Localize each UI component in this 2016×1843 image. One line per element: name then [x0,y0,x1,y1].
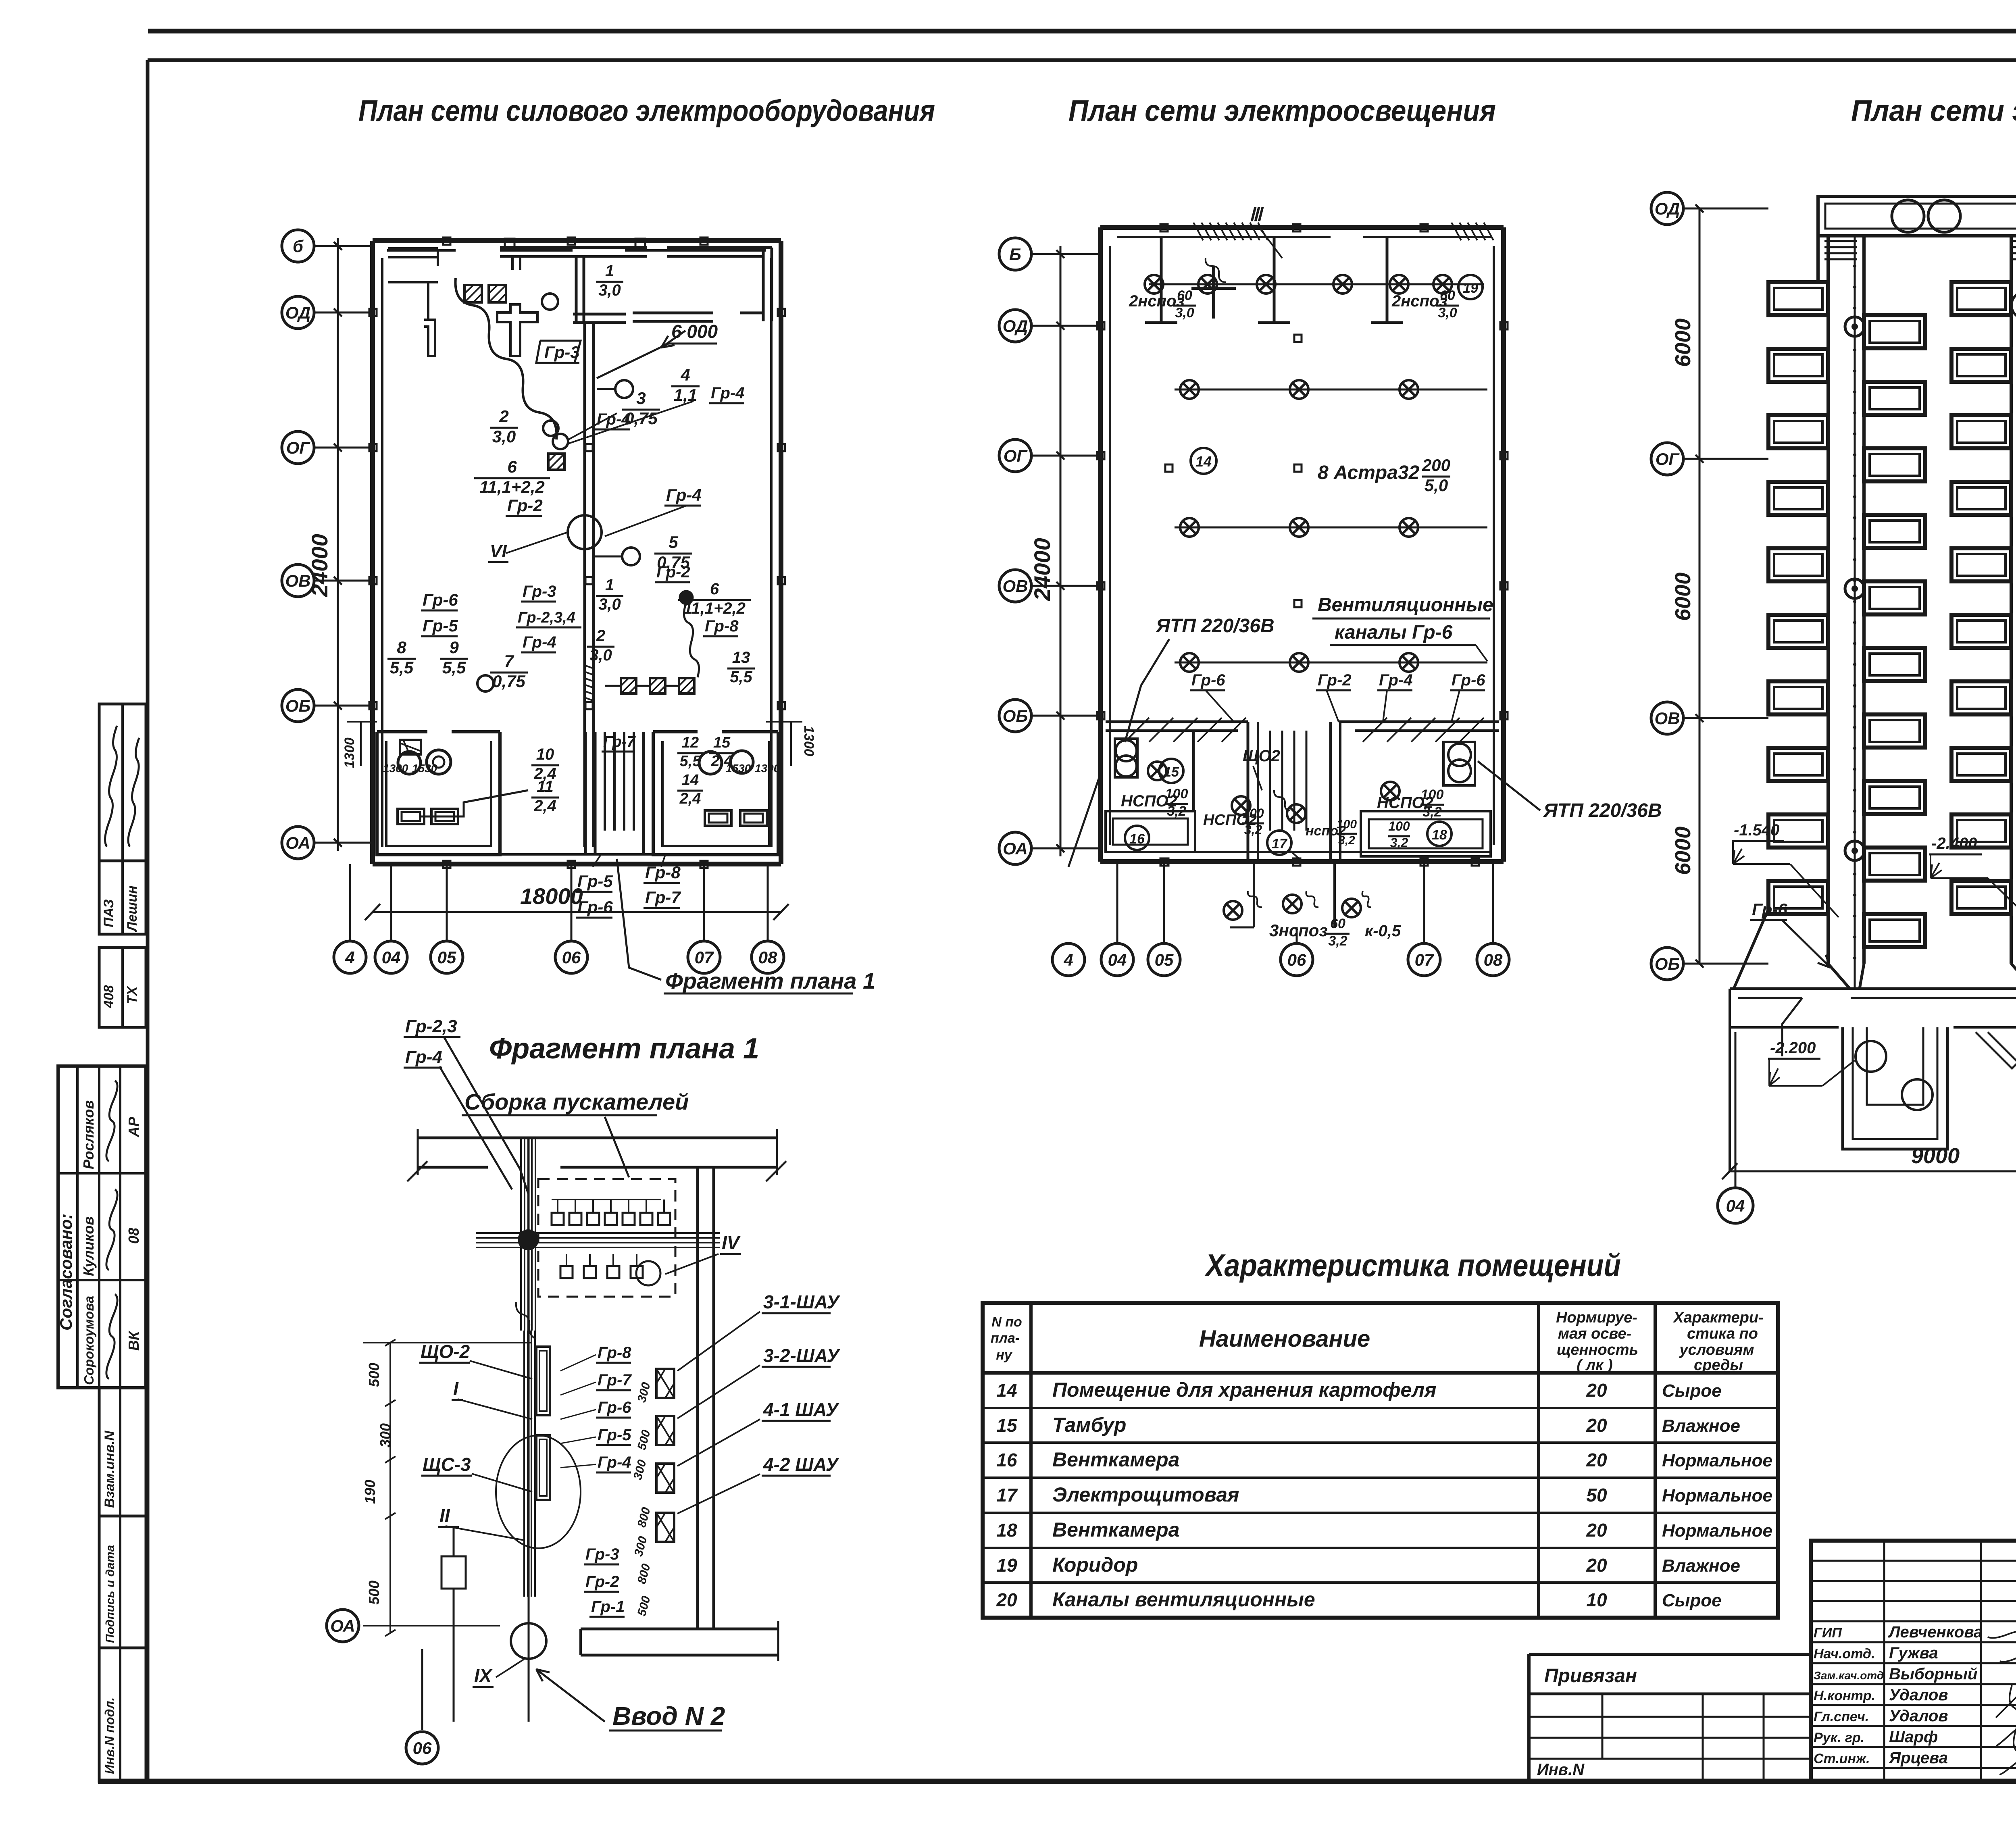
svg-text:ЯТП 220/36В: ЯТП 220/36В [1543,800,1662,821]
svg-text:3,2: 3,2 [1338,834,1355,847]
svg-text:ОД: ОД [285,303,310,322]
svg-text:06: 06 [1287,950,1306,969]
svg-text:ОВ: ОВ [1003,577,1028,596]
svg-text:ну: ну [996,1347,1013,1363]
svg-text:Наименование: Наименование [1199,1326,1370,1352]
svg-text:Гужва: Гужва [1889,1644,1938,1662]
svg-text:щенность: щенность [1557,1341,1638,1358]
svg-text:Нач.отд.: Нач.отд. [1814,1646,1875,1662]
svg-text:60: 60 [1330,916,1345,931]
svg-text:ОА: ОА [1003,839,1027,858]
svg-text:4: 4 [680,365,690,384]
svg-text:Гр-4: Гр-4 [666,485,702,504]
svg-text:4: 4 [345,948,354,967]
svg-text:Гр-1: Гр-1 [591,1598,625,1616]
svg-text:Гр-3: Гр-3 [544,343,580,362]
svg-text:2,4: 2,4 [679,790,701,807]
svg-text:Привязан: Привязан [1544,1665,1637,1687]
svg-text:ОА: ОА [285,833,310,852]
svg-text:Коридор: Коридор [1052,1554,1138,1576]
svg-text:Гр-2: Гр-2 [585,1573,619,1591]
svg-text:20: 20 [1586,1415,1607,1436]
svg-text:Гр-2,3: Гр-2,3 [405,1016,457,1036]
svg-text:пла-: пла- [991,1331,1020,1346]
svg-text:20: 20 [1586,1380,1607,1401]
svg-text:Ⅲ: Ⅲ [1249,204,1264,225]
svg-text:08: 08 [1484,950,1503,969]
svg-text:18: 18 [996,1520,1017,1541]
svg-text:Выборный: Выборный [1889,1665,1977,1683]
svg-text:6000: 6000 [1671,319,1695,367]
svg-text:20: 20 [996,1589,1017,1610]
svg-text:14: 14 [682,772,699,789]
svg-text:17: 17 [996,1485,1018,1506]
svg-text:План сети силового электрообор: План сети силового электрооборудования [358,94,935,127]
svg-text:18000: 18000 [520,883,583,909]
svg-text:100: 100 [1242,806,1264,820]
svg-text:6: 6 [710,580,719,598]
svg-text:Взам.инв.N: Взам.инв.N [102,1430,117,1508]
svg-text:ЩО-2: ЩО-2 [421,1341,470,1362]
svg-text:05: 05 [437,948,456,967]
svg-text:2: 2 [499,407,508,426]
svg-text:Гр-2: Гр-2 [1318,671,1352,689]
svg-text:Гр-6: Гр-6 [1191,671,1225,689]
svg-text:Ст.инж.: Ст.инж. [1814,1751,1870,1766]
svg-text:500: 500 [366,1581,382,1605]
svg-text:3-2-ШАУ: 3-2-ШАУ [763,1345,841,1366]
svg-text:06: 06 [413,1739,432,1758]
svg-text:11,1+2,2: 11,1+2,2 [479,477,545,496]
svg-text:20: 20 [1586,1555,1607,1576]
svg-text:ЩС-3: ЩС-3 [423,1454,471,1475]
svg-text:стика по: стика по [1687,1325,1758,1342]
svg-text:Ярцева: Ярцева [1889,1749,1948,1767]
svg-text:ЩО2: ЩО2 [1243,747,1280,765]
svg-text:60: 60 [1440,288,1455,303]
svg-text:1530: 1530 [726,762,751,775]
svg-text:Шарф: Шарф [1889,1728,1938,1746]
svg-text:ОБ: ОБ [1655,954,1680,973]
svg-text:8 Астра32: 8 Астра32 [1318,462,1420,483]
svg-text:15: 15 [713,734,731,751]
svg-text:2,4: 2,4 [533,797,556,815]
svg-text:Росляков: Росляков [80,1100,97,1169]
svg-text:Удалов: Удалов [1889,1686,1948,1704]
svg-text:Сборка пускателей: Сборка пускателей [464,1089,689,1114]
svg-text:ОД: ОД [1655,199,1680,218]
svg-text:II: II [439,1505,450,1526]
svg-text:19: 19 [1463,281,1478,296]
svg-text:Характери-: Характери- [1672,1309,1764,1326]
svg-text:3,2: 3,2 [1244,823,1262,837]
svg-text:6000: 6000 [1671,573,1695,621]
svg-text:3-1-ШАУ: 3-1-ШАУ [763,1291,841,1312]
svg-text:-2.200: -2.200 [1770,1039,1816,1057]
svg-text:Инв.N: Инв.N [1537,1761,1585,1778]
svg-text:условиям: условиям [1679,1341,1754,1358]
svg-text:Рук. гр.: Рук. гр. [1814,1730,1864,1745]
svg-text:Гр-8: Гр-8 [705,617,739,635]
svg-text:ГИП: ГИП [1814,1625,1842,1641]
svg-text:мая осве-: мая осве- [1558,1325,1631,1342]
svg-text:24000: 24000 [1029,538,1055,601]
svg-text:Сырое: Сырое [1662,1591,1722,1610]
svg-text:5: 5 [669,533,678,552]
svg-text:5,5: 5,5 [730,668,752,686]
svg-text:Гр-3: Гр-3 [585,1545,619,1563]
svg-text:Сырое: Сырое [1662,1381,1722,1401]
svg-text:Влажное: Влажное [1662,1556,1740,1576]
svg-text:100: 100 [1388,819,1410,833]
svg-text:06: 06 [562,948,581,967]
svg-text:I: I [453,1378,459,1399]
svg-text:10: 10 [536,746,554,763]
svg-text:Ввод N 2: Ввод N 2 [612,1701,725,1731]
svg-text:4-2 ШАУ: 4-2 ШАУ [763,1454,840,1475]
svg-text:6000: 6000 [1671,827,1695,875]
svg-text:Помещение для хранения карт: Помещение для хранения картофеля [1052,1379,1437,1401]
svg-text:Куликов: Куликов [80,1216,97,1276]
svg-text:Гр-4: Гр-4 [405,1047,442,1067]
svg-text:Гр-3: Гр-3 [523,583,556,600]
svg-text:Гр-4: Гр-4 [711,384,745,402]
svg-text:Гр-2,3,4: Гр-2,3,4 [518,609,575,626]
svg-text:Нормируе-: Нормируе- [1556,1309,1637,1326]
svg-text:Венткамера: Венткамера [1052,1448,1179,1471]
svg-text:Гр-7: Гр-7 [603,733,636,750]
svg-text:04: 04 [382,948,401,967]
svg-text:3нспоз: 3нспоз [1269,921,1328,940]
svg-text:6: 6 [507,457,517,476]
svg-text:1300: 1300 [755,762,780,775]
svg-text:Электрощитовая: Электрощитовая [1052,1483,1239,1506]
svg-text:1: 1 [605,576,614,594]
svg-text:-1.540: -1.540 [1734,821,1779,839]
svg-text:1530: 1530 [412,762,437,775]
svg-text:ОГ: ОГ [1004,446,1028,465]
svg-text:08: 08 [125,1228,142,1244]
svg-text:Гр-4: Гр-4 [1379,671,1413,689]
svg-text:ОВ: ОВ [1655,709,1680,728]
svg-text:Тамбур: Тамбур [1052,1414,1126,1436]
svg-text:Характеристика помещений: Характеристика помещений [1204,1247,1621,1283]
svg-text:Фрагмент плана 1: Фрагмент плана 1 [665,968,875,993]
svg-text:300: 300 [377,1423,394,1447]
svg-text:7: 7 [504,652,514,671]
svg-text:Гр-4: Гр-4 [597,410,631,428]
svg-text:N по: N по [991,1314,1022,1330]
svg-text:05: 05 [1155,950,1174,969]
svg-text:Гр-2: Гр-2 [507,496,543,515]
svg-text:3,0: 3,0 [598,596,621,613]
svg-text:среды: среды [1694,1357,1743,1374]
svg-text:-2.400: -2.400 [1931,835,1977,852]
svg-text:50: 50 [1586,1485,1607,1506]
svg-text:15: 15 [1164,764,1179,780]
svg-text:10: 10 [1586,1589,1607,1610]
svg-text:60: 60 [1177,288,1192,303]
svg-text:08: 08 [758,948,777,967]
svg-text:Гр-5: Гр-5 [423,616,458,635]
svg-text:3,2: 3,2 [1328,933,1347,949]
svg-text:Инв.N подл.: Инв.N подл. [102,1697,117,1774]
svg-text:Гл.спеч.: Гл.спеч. [1814,1709,1869,1724]
svg-text:Нормальное: Нормальное [1662,1451,1772,1470]
svg-text:12: 12 [682,734,699,751]
svg-text:11: 11 [537,778,554,796]
svg-text:5,5: 5,5 [680,753,702,770]
svg-text:б: б [293,237,304,256]
svg-text:14: 14 [996,1380,1017,1401]
svg-text:каналы Гр-6: каналы Гр-6 [1335,622,1453,643]
svg-text:Н.контр.: Н.контр. [1814,1688,1875,1703]
svg-text:Левченкова: Левченкова [1888,1623,1983,1641]
svg-text:5,5: 5,5 [442,658,466,677]
svg-text:Каналы вентиляционные: Каналы вентиляционные [1052,1588,1315,1611]
svg-text:16: 16 [1129,831,1145,847]
svg-text:5,5: 5,5 [390,658,414,677]
svg-text:3,0: 3,0 [598,281,621,299]
svg-text:11,1+2,2: 11,1+2,2 [683,600,746,617]
svg-text:2: 2 [596,627,605,645]
svg-text:408: 408 [101,985,117,1008]
svg-text:3,2: 3,2 [1390,835,1408,850]
svg-text:ПАЗ: ПАЗ [101,899,117,927]
svg-text:IX: IX [474,1665,493,1686]
svg-text:Гр-4: Гр-4 [598,1454,631,1471]
svg-text:Зам.кач.отд: Зам.кач.отд [1814,1669,1884,1682]
svg-text:13: 13 [732,649,750,666]
svg-text:ОГ: ОГ [286,438,311,457]
svg-text:АР: АР [125,1116,142,1137]
svg-text:Гр-6: Гр-6 [1752,900,1787,919]
svg-text:Гр-6: Гр-6 [1452,671,1485,689]
svg-text:( лк ): ( лк ) [1577,1357,1612,1374]
svg-text:190: 190 [362,1480,378,1504]
svg-text:18: 18 [1432,827,1447,843]
svg-text:100: 100 [1337,818,1357,831]
svg-text:5,0: 5,0 [1425,476,1448,495]
svg-text:9: 9 [449,638,459,657]
svg-text:1300: 1300 [383,762,408,775]
svg-text:24000: 24000 [307,534,332,597]
svg-text:Гр-2: Гр-2 [656,563,690,581]
svg-text:Гр-5: Гр-5 [598,1426,631,1444]
svg-text:1: 1 [605,262,614,280]
svg-text:Гр-7: Гр-7 [598,1371,632,1389]
svg-text:04: 04 [1726,1196,1745,1215]
svg-text:ВК: ВК [125,1330,142,1351]
svg-text:14: 14 [1195,453,1212,470]
svg-text:Сорокоумова: Сорокоумова [81,1296,96,1385]
svg-text:1300: 1300 [801,726,816,756]
svg-text:ОА: ОА [330,1616,355,1635]
svg-text:15: 15 [996,1415,1018,1436]
svg-text:9000: 9000 [1911,1144,1960,1168]
svg-text:Гр-8: Гр-8 [645,863,681,882]
svg-text:20: 20 [1586,1449,1607,1470]
svg-text:Подпись и дата: Подпись и дата [104,1545,117,1643]
svg-text:100: 100 [1165,786,1188,802]
svg-text:Гр-6: Гр-6 [423,590,458,609]
svg-text:0,75: 0,75 [492,672,525,691]
svg-text:04: 04 [1108,950,1127,969]
svg-text:8: 8 [397,638,406,657]
svg-text:3,0: 3,0 [1175,305,1194,321]
svg-text:1300: 1300 [342,737,357,768]
svg-text:4: 4 [1063,950,1073,969]
svg-text:Согласовано:: Согласовано: [56,1214,75,1331]
svg-text:Гр-8: Гр-8 [598,1344,631,1362]
svg-text:17: 17 [1272,836,1288,852]
svg-text:к-0,5: к-0,5 [1365,922,1401,940]
svg-text:100: 100 [1421,787,1444,802]
svg-text:ОБ: ОБ [1003,706,1028,725]
svg-text:ОБ: ОБ [285,696,310,715]
svg-text:Гр-6: Гр-6 [598,1399,631,1416]
svg-text:07: 07 [695,948,714,967]
svg-text:07: 07 [1415,950,1434,969]
svg-text:Гр-4: Гр-4 [523,633,556,651]
svg-text:Нормальное: Нормальное [1662,1486,1772,1506]
svg-text:План сети электроосвещения: План сети электроосвещения [1068,94,1496,127]
svg-text:16: 16 [996,1449,1017,1470]
svg-text:IV: IV [722,1232,741,1253]
svg-text:Лешин: Лешин [125,885,140,933]
svg-text:3,0: 3,0 [1438,305,1457,321]
svg-text:6 000: 6 000 [671,321,718,342]
svg-text:План сети электроосвещения ка: План сети электроосвещения каналов [1851,94,2016,127]
svg-text:Нормальное: Нормальное [1662,1521,1772,1541]
svg-text:ТХ: ТХ [125,985,140,1004]
svg-text:Гр-7: Гр-7 [645,888,681,907]
svg-text:20: 20 [1586,1520,1607,1541]
svg-text:Венткамера: Венткамера [1052,1518,1179,1541]
svg-text:ЯТП 220/36В: ЯТП 220/36В [1155,615,1275,637]
svg-text:3: 3 [636,389,646,408]
svg-text:500: 500 [366,1363,382,1387]
svg-text:Вентиляционные: Вентиляционные [1318,594,1493,616]
svg-text:4-1 ШАУ: 4-1 ШАУ [763,1399,840,1420]
svg-text:Удалов: Удалов [1889,1707,1948,1725]
svg-text:200: 200 [1422,456,1450,475]
svg-text:19: 19 [996,1555,1017,1576]
svg-text:3,0: 3,0 [492,427,516,446]
svg-text:1,1: 1,1 [674,385,697,404]
svg-text:Фрагмент плана 1: Фрагмент плана 1 [489,1033,759,1065]
svg-text:Влажное: Влажное [1662,1416,1740,1436]
svg-text:Б: Б [1009,245,1021,264]
svg-text:ОГ: ОГ [1656,450,1680,469]
svg-text:ОД: ОД [1003,317,1028,335]
svg-text:VI: VI [490,541,507,561]
